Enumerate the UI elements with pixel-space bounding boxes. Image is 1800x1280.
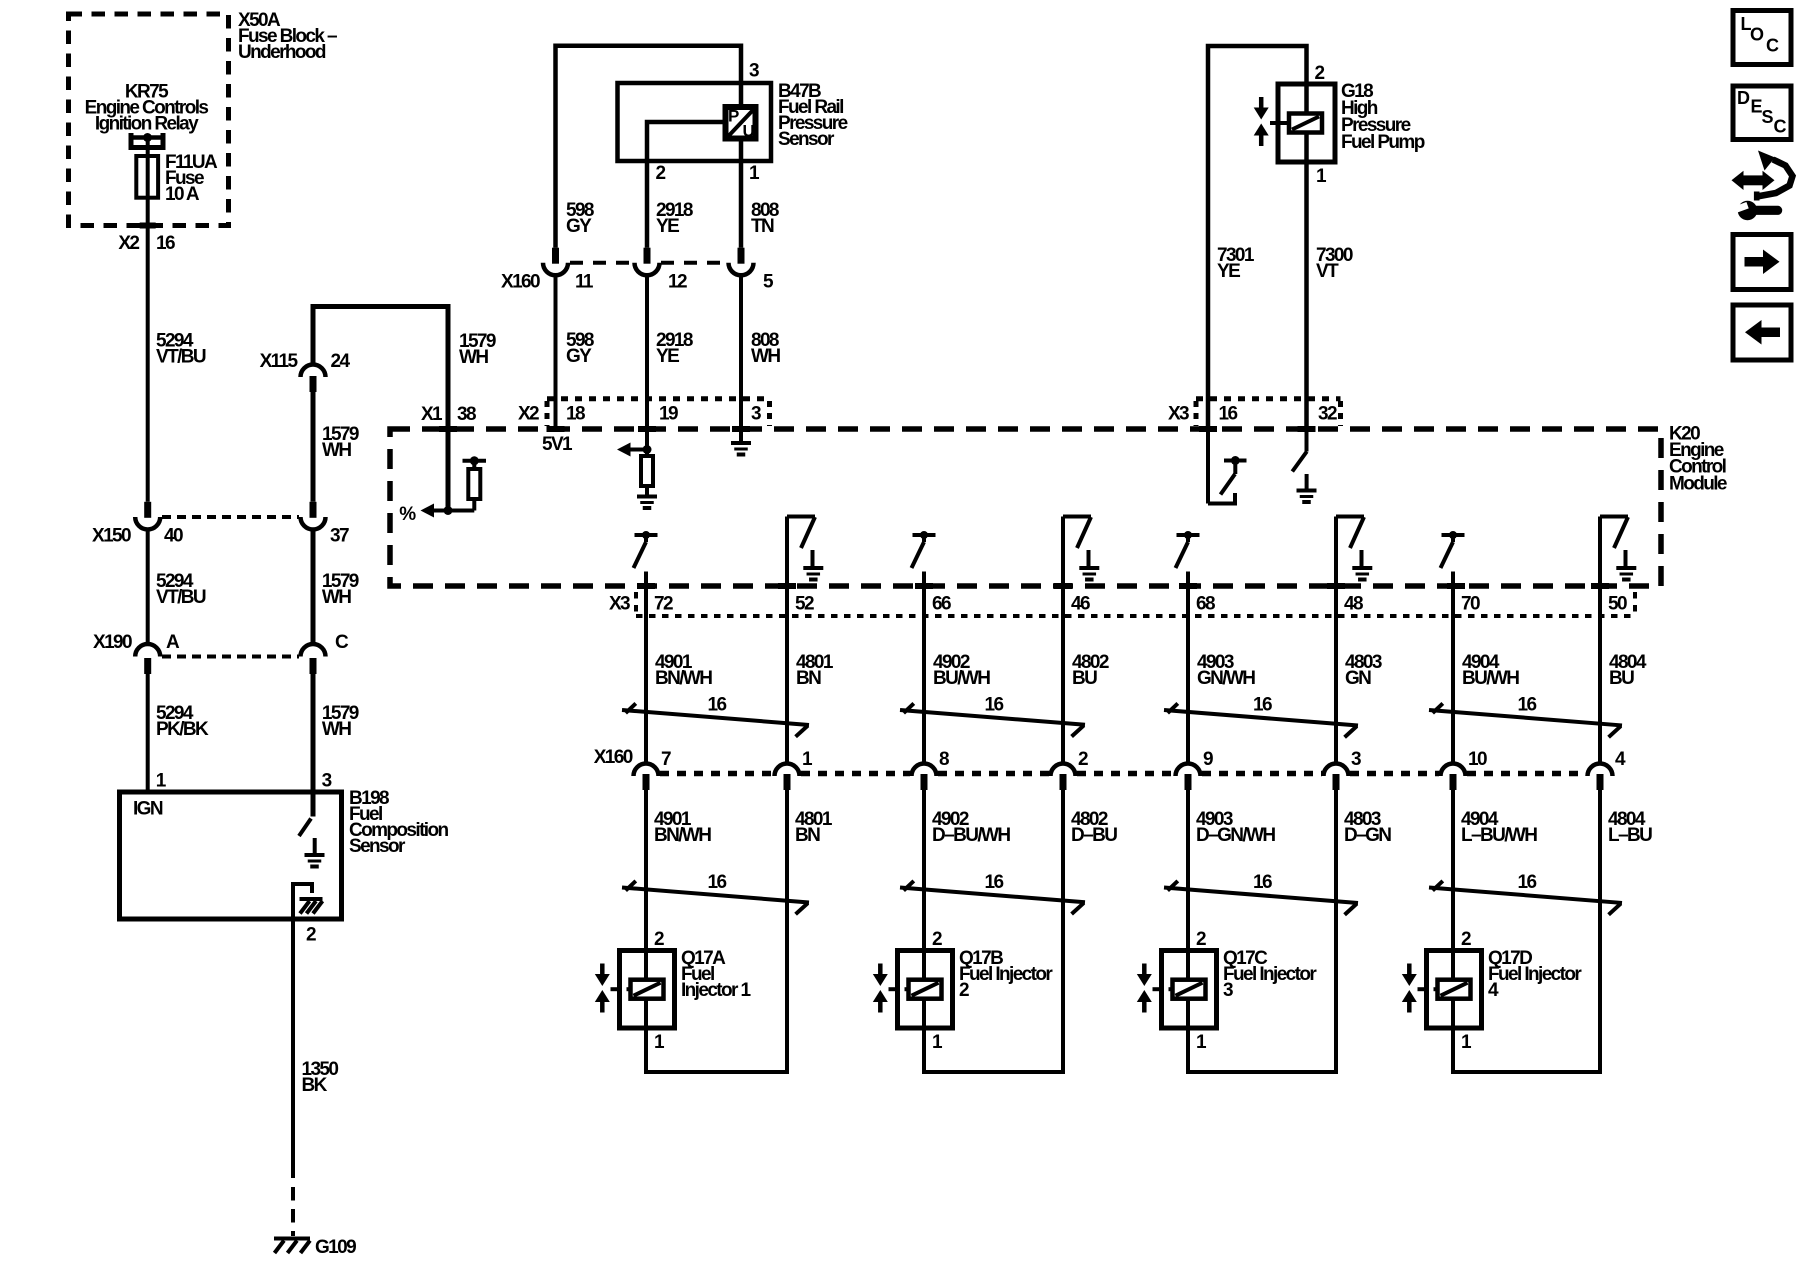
- svg-text:BU: BU: [1072, 668, 1097, 689]
- svg-text:2: 2: [656, 163, 666, 184]
- svg-text:2: 2: [1461, 929, 1471, 950]
- connector X160 pin 8: [912, 764, 937, 777]
- svg-text:GN: GN: [1345, 668, 1371, 689]
- svg-text:Fuel Pump: Fuel Pump: [1341, 132, 1425, 153]
- svg-text:2: 2: [306, 925, 316, 946]
- twisted pair crossover 16 (upper, injector 2): [900, 710, 1085, 725]
- wire crossing ticks ECM bottom edge: [637, 583, 655, 589]
- injector arrows Q17B: [878, 964, 883, 977]
- svg-text:TN: TN: [751, 216, 774, 237]
- wire 2918 YE lower: [645, 275, 649, 429]
- svg-text:32: 32: [1318, 404, 1337, 425]
- connector row X150 dotted line: [162, 515, 299, 519]
- svg-text:2: 2: [1196, 929, 1206, 950]
- signal arrow percent (ethanol content): [421, 504, 435, 518]
- junction dot 2918 branch: [643, 445, 652, 454]
- svg-text:BU: BU: [1609, 668, 1634, 689]
- connector X160 pin 5: [738, 248, 745, 264]
- connector X150 pin 37: [310, 502, 317, 518]
- connector X160 pin 10: [1441, 764, 1466, 777]
- twisted pair crossover 16 (lower, injector 3): [1164, 888, 1358, 904]
- svg-text:7: 7: [661, 749, 671, 770]
- pump arrows G18: [1259, 97, 1264, 110]
- svg-text:X1: X1: [421, 404, 443, 425]
- svg-text:68: 68: [1196, 594, 1215, 615]
- connector row X160 dotted line (sensor): [570, 261, 633, 265]
- svg-text:16: 16: [1253, 872, 1272, 893]
- connector X160 pin 7: [634, 764, 659, 777]
- connector X160 pin 2: [1051, 764, 1076, 777]
- wire injector Q17B loop to X160: [924, 790, 1063, 1072]
- twisted pair crossover 16 (upper, injector 4): [1429, 710, 1622, 725]
- svg-text:X2: X2: [518, 404, 539, 425]
- icon box arrow right: [1733, 235, 1791, 290]
- twisted pair crossover 16 (upper, injector 1): [622, 710, 809, 725]
- twisted pair crossover 16 (upper, injector 3): [1164, 710, 1358, 726]
- injector Q17C box: [1162, 951, 1217, 1029]
- connector X160 pin 4: [1588, 764, 1613, 777]
- svg-text:11: 11: [575, 272, 594, 293]
- driver switch injector 1 high side (pin 72): [635, 533, 658, 537]
- ground 2918 branch: [645, 486, 649, 495]
- wire 2918 into ECM: [645, 429, 649, 456]
- wire 808 WH lower: [739, 275, 743, 429]
- wire top rail B47B: [556, 46, 742, 248]
- solenoid G18: [1289, 114, 1322, 133]
- svg-text:16: 16: [1219, 404, 1238, 425]
- svg-text:24: 24: [331, 351, 351, 372]
- svg-text:Injector 1: Injector 1: [681, 980, 752, 1001]
- svg-text:BN: BN: [795, 825, 820, 846]
- svg-text:X150: X150: [92, 526, 131, 547]
- wire G18 top rail: [1208, 46, 1307, 429]
- icon box DESC: [1733, 86, 1791, 140]
- svg-text:3: 3: [749, 61, 759, 82]
- svg-text:16: 16: [708, 872, 727, 893]
- wire 1579 WH X115 to X150: [311, 392, 316, 502]
- svg-text:WH: WH: [322, 440, 351, 461]
- wire B47B pin 2: [647, 122, 723, 248]
- connector X160 pin 11: [552, 248, 559, 264]
- connector X115 pin 24: [301, 365, 326, 378]
- wire 5294 VT/BU to X150: [146, 240, 150, 502]
- svg-text:3: 3: [751, 404, 761, 425]
- solenoid Q17B: [909, 980, 942, 999]
- wire X160 to injector Q17B pin 2: [922, 790, 926, 951]
- svg-text:VT/BU: VT/BU: [156, 347, 206, 368]
- icon box arrow left: [1733, 305, 1791, 360]
- wire 5294 PK/BK to B198 pin 1: [146, 674, 150, 794]
- svg-text:Module: Module: [1669, 473, 1727, 494]
- injector Q17D box: [1427, 951, 1482, 1029]
- injector arrows Q17C: [1142, 964, 1147, 977]
- wire 598 GY lower: [554, 275, 558, 429]
- svg-text:BN: BN: [796, 668, 821, 689]
- svg-text:X115: X115: [260, 351, 299, 372]
- resistor pull-up (X1 branch): [468, 469, 480, 499]
- svg-text:BN/WH: BN/WH: [655, 668, 712, 689]
- svg-text:A: A: [166, 632, 180, 653]
- wire fuse to X2 pin 16: [146, 196, 150, 240]
- svg-text:D–GN: D–GN: [1344, 825, 1391, 846]
- svg-text:YE: YE: [1217, 261, 1240, 282]
- svg-text:BU/WH: BU/WH: [1462, 668, 1519, 689]
- svg-text:BU/WH: BU/WH: [933, 668, 990, 689]
- svg-text:Sensor: Sensor: [778, 129, 835, 150]
- svg-text:GY: GY: [566, 216, 592, 237]
- driver switch injector 3 high side (pin 68): [1177, 533, 1200, 537]
- svg-text:52: 52: [795, 594, 814, 615]
- svg-text:P: P: [728, 107, 739, 126]
- injector Q17A box: [620, 951, 675, 1029]
- wire 5294 X150 to X190: [146, 530, 150, 645]
- injector arrows Q17D: [1407, 964, 1412, 977]
- connector X160 pin 1: [775, 764, 800, 777]
- wire 1579 WH top corner rail: [313, 307, 448, 430]
- svg-text:3: 3: [1223, 980, 1233, 1001]
- svg-text:2: 2: [959, 980, 969, 1001]
- svg-text:D–BU/WH: D–BU/WH: [932, 825, 1010, 846]
- svg-text:VT: VT: [1316, 261, 1339, 282]
- svg-text:2: 2: [1315, 63, 1325, 84]
- svg-text:2: 2: [654, 929, 664, 950]
- resistor 2918 branch: [641, 456, 653, 486]
- svg-text:WH: WH: [459, 347, 488, 368]
- svg-text:X3: X3: [1168, 404, 1189, 425]
- driver switch injector 4 high side (pin 70): [1442, 533, 1465, 537]
- svg-text:9: 9: [1203, 749, 1213, 770]
- wire X160 to injector Q17A pin 2: [644, 790, 648, 951]
- wire 1350 BK dashed section: [291, 1187, 295, 1236]
- svg-text:70: 70: [1461, 594, 1480, 615]
- svg-text:D–GN/WH: D–GN/WH: [1196, 825, 1275, 846]
- connector X190 pin C: [301, 644, 326, 657]
- svg-text:72: 72: [654, 594, 673, 615]
- driver switch injector 1 low side (pin 52): [785, 517, 789, 619]
- wire 1579 WH to B198 pin 3: [311, 674, 316, 817]
- connector X2 dotted box: [547, 396, 770, 401]
- svg-text:37: 37: [330, 526, 349, 547]
- svg-text:Sensor: Sensor: [349, 836, 406, 857]
- injector arrows Q17A: [600, 964, 605, 977]
- svg-text:38: 38: [457, 404, 476, 425]
- svg-text:2: 2: [1078, 749, 1088, 770]
- wire G18 internal pin2: [1304, 84, 1309, 114]
- driver switch injector 3 low side (pin 48): [1334, 517, 1338, 619]
- driver switch fuel pump command (pin 16): [1206, 429, 1210, 504]
- sensor B47B box: [618, 83, 772, 161]
- svg-text:X160: X160: [501, 272, 540, 293]
- svg-text:10 A: 10 A: [165, 184, 200, 205]
- wire B47B pin 1: [739, 141, 744, 248]
- svg-text:C: C: [1766, 36, 1779, 56]
- wire X160 to injector Q17C pin 2: [1186, 790, 1190, 951]
- driver switch injector 2 high side (pin 66): [913, 533, 936, 537]
- connector X160 pin 9: [1176, 764, 1201, 777]
- svg-text:16: 16: [156, 233, 175, 254]
- wire crossing ticks ECM top edge: [439, 426, 457, 432]
- svg-text:19: 19: [659, 404, 678, 425]
- svg-text:WH: WH: [322, 719, 351, 740]
- module K20 engine control module dashed box: [390, 429, 1661, 586]
- wire relay to fuse: [146, 139, 150, 158]
- twisted pair crossover 16 (lower, injector 4): [1429, 888, 1622, 903]
- svg-text:C: C: [335, 632, 349, 653]
- svg-text:GN/WH: GN/WH: [1197, 668, 1255, 689]
- svg-text:S: S: [1762, 107, 1774, 127]
- svg-text:16: 16: [708, 695, 727, 716]
- ground G109 chassis: [274, 1237, 310, 1241]
- svg-text:46: 46: [1071, 594, 1090, 615]
- connector X160 pin 3: [1324, 764, 1349, 777]
- pressure transducer P/U symbol: [726, 107, 756, 139]
- solenoid Q17D: [1438, 980, 1471, 999]
- wire X1-38 into ECM: [446, 429, 451, 511]
- driver switch injector 4 low side (pin 50): [1598, 517, 1602, 619]
- relay KR75 contact symbol: [131, 133, 163, 148]
- solenoid Q17A: [631, 980, 664, 999]
- svg-text:Underhood: Underhood: [238, 42, 326, 63]
- svg-text:PK/BK: PK/BK: [156, 719, 209, 740]
- svg-text:C: C: [1774, 117, 1787, 137]
- svg-text:YE: YE: [656, 346, 679, 367]
- connector X3 row dotted line: [636, 614, 1635, 618]
- svg-text:50: 50: [1608, 594, 1627, 615]
- fuse F11UA: [136, 156, 158, 198]
- svg-text:L–BU: L–BU: [1608, 825, 1652, 846]
- icon wrench and arrows: [1742, 175, 1763, 185]
- signal arrow 2918 branch: [617, 443, 631, 457]
- svg-text:48: 48: [1344, 594, 1363, 615]
- svg-text:10: 10: [1468, 749, 1487, 770]
- pump G18 box: [1278, 84, 1335, 162]
- twisted pair crossover 16 (lower, injector 1): [622, 888, 809, 903]
- svg-text:3: 3: [1351, 749, 1361, 770]
- svg-text:YE: YE: [656, 216, 679, 237]
- connector X190 pin A: [135, 644, 160, 656]
- svg-text:16: 16: [1518, 695, 1537, 716]
- tick X50A box exit: [140, 223, 156, 229]
- svg-text:G109: G109: [315, 1237, 356, 1258]
- svg-text:Fuel Injector: Fuel Injector: [1488, 964, 1582, 985]
- connector X160 pin 12: [644, 248, 651, 264]
- ground B198 internal: [313, 838, 317, 854]
- svg-text:WH: WH: [322, 587, 351, 608]
- svg-text:IGN: IGN: [133, 799, 163, 820]
- svg-text:5V1: 5V1: [542, 434, 573, 455]
- connector row X190 dotted line: [162, 655, 299, 659]
- svg-text:X160: X160: [594, 747, 633, 768]
- driver switch injector 2 low side (pin 46): [1061, 517, 1065, 619]
- svg-text:O: O: [1750, 25, 1764, 45]
- svg-text:40: 40: [164, 526, 183, 547]
- svg-text:U: U: [743, 122, 755, 141]
- wire 1350 BK: [291, 919, 295, 1178]
- injector Q17B box: [898, 951, 953, 1029]
- internal 5V supply (X1 branch): [463, 459, 487, 463]
- svg-text:18: 18: [566, 404, 585, 425]
- connector X3 dotted box (pump): [1196, 396, 1341, 401]
- svg-text:BK: BK: [302, 1075, 328, 1096]
- svg-text:3: 3: [322, 771, 332, 792]
- icon box LOC: [1733, 11, 1791, 65]
- svg-text:8: 8: [939, 749, 949, 770]
- wire injector Q17D loop to X160: [1453, 790, 1600, 1072]
- svg-text:D: D: [1737, 88, 1750, 108]
- node 5V1 wire stub: [554, 429, 558, 432]
- svg-text:BN/WH: BN/WH: [654, 825, 711, 846]
- svg-text:12: 12: [668, 272, 687, 293]
- svg-text:16: 16: [1253, 695, 1272, 716]
- svg-text:D–BU: D–BU: [1071, 825, 1117, 846]
- svg-text:66: 66: [932, 594, 951, 615]
- wire 1579 X150 to X190: [311, 530, 316, 645]
- svg-text:VT/BU: VT/BU: [156, 587, 206, 608]
- twisted pair crossover 16 (lower, injector 2): [900, 888, 1085, 903]
- ground 808 branch: [731, 441, 751, 445]
- svg-text:%: %: [399, 504, 416, 525]
- wire injector Q17A loop to X160: [646, 790, 787, 1072]
- fuse block X50A (dashed box): [69, 14, 229, 226]
- svg-text:Fuel Injector: Fuel Injector: [1223, 964, 1317, 985]
- svg-text:Fuel Injector: Fuel Injector: [959, 964, 1053, 985]
- svg-text:16: 16: [985, 695, 1004, 716]
- svg-text:X190: X190: [93, 632, 132, 653]
- svg-text:16: 16: [1518, 872, 1537, 893]
- wires X3 to X160 (8 injector wires): [644, 619, 648, 764]
- svg-text:X2: X2: [118, 233, 139, 254]
- wire injector Q17C loop to X160: [1188, 790, 1336, 1072]
- wire X160 to injector Q17D pin 2: [1451, 790, 1455, 951]
- switch blade B198 internal: [299, 819, 311, 837]
- wire G18 pin 1 to X3: [1304, 133, 1309, 430]
- driver switch fuel pump ground (pin 32): [1305, 429, 1309, 452]
- svg-text:16: 16: [985, 872, 1004, 893]
- svg-text:X3: X3: [609, 594, 630, 615]
- solenoid Q17C: [1173, 980, 1206, 999]
- svg-text:2: 2: [932, 929, 942, 950]
- connector row X160 dotted line (bottom): [660, 771, 773, 777]
- sensor B198 box: [120, 792, 342, 919]
- wire 808 into ECM: [739, 429, 743, 442]
- junction dot X1 branch: [444, 506, 453, 515]
- connector X150 pin 40: [144, 502, 151, 518]
- chassis ground B198 internal: [293, 884, 312, 919]
- svg-text:L–BU/WH: L–BU/WH: [1461, 825, 1537, 846]
- svg-text:WH: WH: [751, 346, 780, 367]
- svg-text:GY: GY: [566, 346, 592, 367]
- svg-text:Ignition Relay: Ignition Relay: [95, 114, 199, 135]
